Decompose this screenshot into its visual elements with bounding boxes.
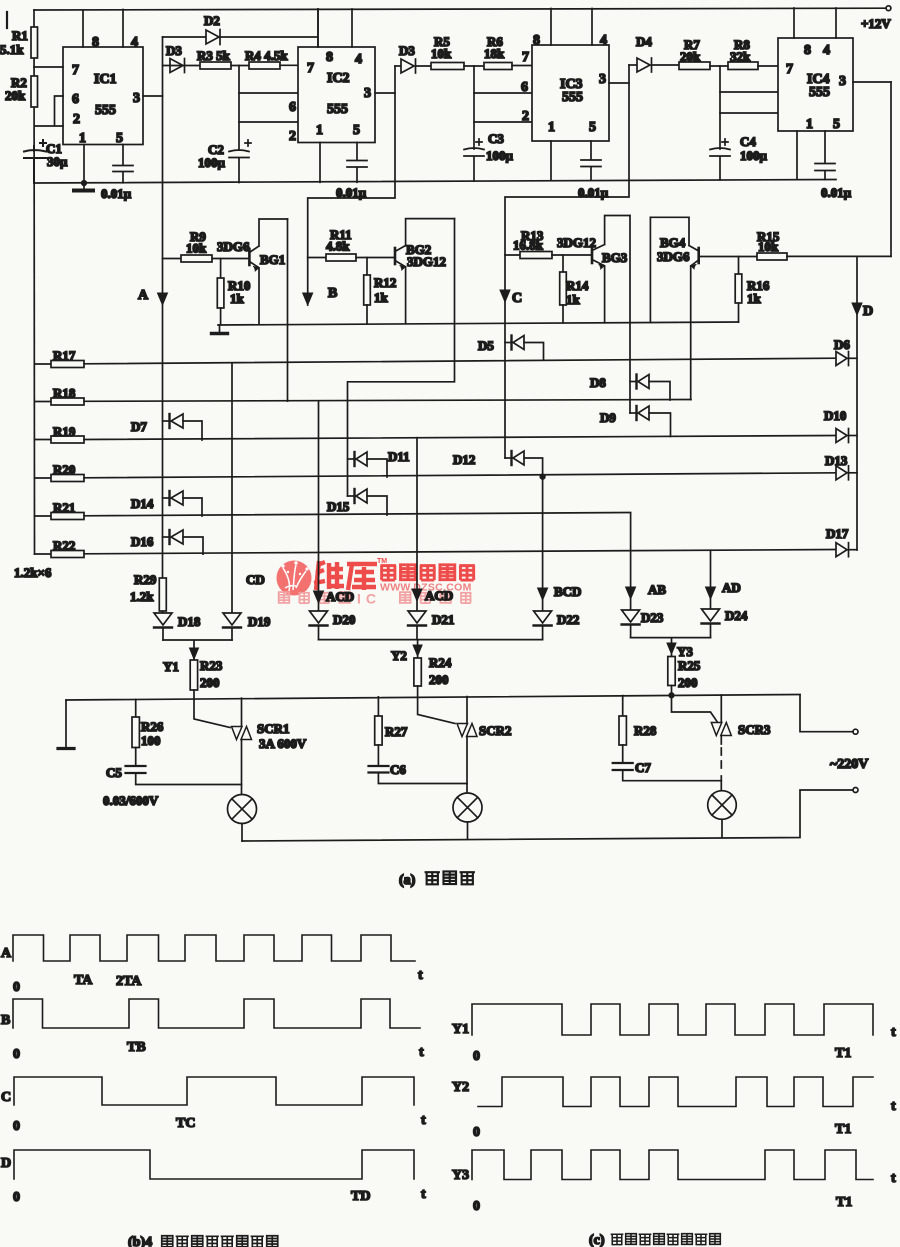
svg-text:D3: D3 <box>166 43 182 58</box>
svg-text:Y2: Y2 <box>391 648 407 663</box>
svg-text:Y1: Y1 <box>452 1022 469 1037</box>
diode D12 <box>453 451 545 479</box>
svg-text:6: 6 <box>289 100 296 115</box>
svg-text:1: 1 <box>316 123 323 138</box>
svg-text:7: 7 <box>72 63 79 78</box>
pin 3 IC4 wire <box>839 74 891 89</box>
diode D5 <box>478 336 544 361</box>
diode D18 <box>154 613 201 640</box>
svg-text:D: D <box>1 1156 11 1171</box>
diode D10 <box>824 408 857 443</box>
capacitor 0.01u IC2 pin5 <box>336 123 367 200</box>
svg-text:5: 5 <box>116 131 123 146</box>
op-amp IC3 555 <box>532 45 609 141</box>
svg-text:~220V: ~220V <box>830 757 868 772</box>
svg-text:1.2k×6: 1.2k×6 <box>14 565 52 580</box>
resistor R20 <box>35 462 837 482</box>
svg-text:t: t <box>418 968 423 983</box>
svg-text:D11: D11 <box>388 449 410 464</box>
resistor R14 <box>560 255 589 323</box>
node ACD vertical 1 <box>314 401 355 613</box>
node CD vertical <box>232 364 265 613</box>
text 维库 <box>314 561 377 590</box>
svg-text:A: A <box>138 288 149 303</box>
lamp L1 <box>228 795 257 842</box>
svg-text:R1: R1 <box>12 28 28 43</box>
wire IC4 pin3 down <box>890 82 892 256</box>
svg-text:1k: 1k <box>230 291 245 306</box>
svg-text:TD: TD <box>351 1189 370 1204</box>
diode D20 <box>310 611 356 640</box>
wire 220V upper <box>800 695 853 732</box>
diode D24 <box>702 608 748 638</box>
pin 3 IC1 wire <box>133 91 163 106</box>
node Y1 arrow <box>163 648 199 674</box>
svg-text:3DG6: 3DG6 <box>217 239 250 254</box>
capacitor C1 <box>24 140 68 183</box>
svg-text:BG1: BG1 <box>260 252 285 267</box>
svg-text:D23: D23 <box>641 610 664 625</box>
waveform Y2 <box>452 1077 896 1140</box>
svg-text:3: 3 <box>839 74 846 89</box>
logo circle <box>277 561 312 596</box>
svg-text:IC2: IC2 <box>327 71 350 86</box>
svg-text:t: t <box>891 1099 896 1114</box>
svg-text:BG3: BG3 <box>602 250 628 265</box>
wire Y1 join bar <box>163 640 232 660</box>
transistor BG2 <box>395 219 455 324</box>
wire C3 branch <box>473 66 475 181</box>
waveform Y1 <box>452 1004 896 1064</box>
pin 3 IC3 wire <box>599 72 629 87</box>
svg-text:C: C <box>512 291 522 306</box>
transistor SCR1 triac <box>232 698 307 794</box>
svg-text:1: 1 <box>79 131 86 146</box>
svg-text:D6: D6 <box>834 337 850 352</box>
resistor R1 <box>0 27 38 58</box>
svg-text:Y3: Y3 <box>677 644 693 659</box>
svg-text:ACD: ACD <box>326 589 354 604</box>
diode D11 <box>348 449 410 477</box>
pin 6 IC2 wire <box>239 93 298 115</box>
svg-text:200: 200 <box>429 672 449 687</box>
svg-text:555: 555 <box>562 90 583 105</box>
svg-text:3: 3 <box>364 86 371 101</box>
diode D15 <box>327 489 387 515</box>
svg-text:D13: D13 <box>825 453 848 468</box>
pin 4 IC2 <box>352 9 362 67</box>
svg-text:10k: 10k <box>431 46 452 61</box>
node Y3 arrow <box>667 643 693 659</box>
svg-text:4.8k: 4.8k <box>326 239 350 254</box>
svg-text:+12V: +12V <box>861 16 891 31</box>
svg-text:1k: 1k <box>374 290 389 305</box>
resistor R15 <box>757 229 891 260</box>
transistor BG3 <box>557 216 630 323</box>
pin 4 IC1 <box>123 10 138 51</box>
svg-text:0: 0 <box>473 1049 480 1064</box>
pin 6 IC3 wire <box>474 80 532 95</box>
svg-text:R23: R23 <box>200 658 223 673</box>
wire bottom rail stage row <box>34 180 836 184</box>
text 电子市场网 <box>380 565 474 580</box>
svg-text:t: t <box>421 1113 426 1128</box>
svg-text:D9: D9 <box>600 410 616 425</box>
svg-text:TM: TM <box>377 558 387 565</box>
svg-text:T1: T1 <box>835 1046 851 1061</box>
pin 6 IC4 wire <box>720 88 793 103</box>
svg-text:D14: D14 <box>131 496 154 511</box>
svg-text:1k: 1k <box>747 291 762 306</box>
pin 8 IC2 <box>318 9 333 65</box>
pin 2 IC4 wire <box>720 110 792 125</box>
wire left rail <box>33 10 36 554</box>
pin 1 IC4 wire <box>797 117 813 180</box>
svg-text:D10: D10 <box>824 408 846 423</box>
svg-text:100μ: 100μ <box>198 155 226 170</box>
transistor SCR3 triac <box>711 695 771 791</box>
waveform A <box>1 935 423 995</box>
svg-text:1.2k: 1.2k <box>130 589 154 604</box>
svg-text:5: 5 <box>589 120 596 135</box>
wire SCR gate rail <box>66 695 800 701</box>
capacitor C2 <box>198 140 251 170</box>
svg-text:R19: R19 <box>53 424 76 439</box>
svg-text:0: 0 <box>13 1190 20 1205</box>
diode D2 <box>163 9 319 47</box>
svg-text:0: 0 <box>13 1119 20 1134</box>
svg-text:8: 8 <box>92 35 99 50</box>
svg-text:16.8k: 16.8k <box>513 238 544 253</box>
wire BG4 base to R15 <box>699 256 757 258</box>
resistor R12 <box>364 258 397 324</box>
pin 8 IC3 <box>533 9 551 49</box>
svg-text:R26: R26 <box>141 719 164 734</box>
wire IC2 pin3 to B <box>308 66 395 305</box>
svg-text:t: t <box>891 1025 896 1040</box>
ground rail row2 <box>218 322 739 325</box>
diode D8 <box>590 375 670 401</box>
pin 2 IC2 wire <box>239 122 298 144</box>
svg-text:5: 5 <box>353 123 360 138</box>
node ACD vertical 2 <box>412 438 453 611</box>
svg-text:TB: TB <box>127 1040 146 1055</box>
diode D19 <box>223 613 271 640</box>
node D vertical <box>852 256 873 550</box>
resistor R9 <box>163 229 249 262</box>
transistor BG4 <box>650 217 698 399</box>
svg-text:AD: AD <box>722 580 741 595</box>
resistor R24 <box>414 655 452 698</box>
capacitor 0.01u IC4 pin5 <box>815 117 852 200</box>
svg-text:7: 7 <box>522 50 529 65</box>
capacitor C3 <box>464 131 514 163</box>
wire Y3 join bar <box>631 638 711 657</box>
op-amp IC4 555 <box>778 38 853 131</box>
resistor R11 <box>308 227 394 261</box>
pin 7 IC1 wire <box>34 63 79 78</box>
svg-text:C: C <box>1 1090 11 1105</box>
resistor R5 <box>431 34 484 70</box>
svg-text:SCR3: SCR3 <box>738 722 771 737</box>
resistor R17 <box>35 348 837 368</box>
diode D23 <box>622 610 664 638</box>
pin 3 IC2 wire <box>364 86 395 101</box>
capacitor C6 <box>369 762 468 784</box>
svg-text:3DG6: 3DG6 <box>657 249 690 264</box>
diode D7 <box>131 414 202 440</box>
svg-text:100μ: 100μ <box>486 148 514 163</box>
pin 8 IC1 <box>83 10 99 50</box>
diode D14 <box>131 491 202 516</box>
wire C4 branch <box>719 66 721 180</box>
pin 2 IC3 wire <box>474 109 532 124</box>
svg-text:T1: T1 <box>835 1122 851 1137</box>
svg-text:0: 0 <box>13 980 20 995</box>
resistor R25 <box>668 657 701 698</box>
svg-text:R28: R28 <box>634 723 657 738</box>
svg-text:IC: IC <box>357 591 381 607</box>
svg-text:8: 8 <box>326 50 333 65</box>
svg-text:4: 4 <box>131 35 138 50</box>
wire SCR1 gate <box>194 699 230 727</box>
wire IC3 pin3 to C <box>505 65 629 458</box>
svg-text:SCR1: SCR1 <box>257 721 290 736</box>
diode D3 second <box>395 43 431 73</box>
svg-text:BCD: BCD <box>554 584 581 599</box>
ground symbol row2 <box>212 325 228 334</box>
svg-text:(c): (c) <box>589 1233 605 1247</box>
wire BG4 collector left leg <box>649 217 651 322</box>
resistor R4 <box>231 48 298 69</box>
resistor R16 <box>735 257 770 323</box>
svg-text:B: B <box>1 1013 10 1028</box>
resistor R7 <box>679 37 728 70</box>
diode D9 <box>600 406 671 436</box>
svg-text:4: 4 <box>823 43 830 58</box>
pin 1 IC2 wire <box>316 123 323 182</box>
svg-text:R18: R18 <box>53 386 76 401</box>
svg-text:8: 8 <box>533 33 540 48</box>
pin 4 IC3 <box>592 9 607 49</box>
svg-text:0.03/600V: 0.03/600V <box>103 793 159 808</box>
svg-text:1: 1 <box>806 117 813 132</box>
diode D4 <box>629 34 679 72</box>
svg-text:C4: C4 <box>740 134 756 149</box>
svg-text:2TA: 2TA <box>116 974 142 989</box>
diode D16 <box>131 530 203 554</box>
svg-text:555: 555 <box>809 85 830 100</box>
svg-text:200: 200 <box>200 675 220 690</box>
svg-text:6: 6 <box>521 80 528 95</box>
resistor R19 <box>35 424 837 443</box>
wire C2 branch <box>238 66 240 183</box>
node 220V lower terminal <box>853 788 858 793</box>
wire SCR2 gate <box>418 697 455 723</box>
svg-text:BG4: BG4 <box>660 235 686 250</box>
wire SCR3 gate <box>672 695 718 721</box>
capacitor C5 <box>103 765 242 808</box>
svg-text:Y1: Y1 <box>163 659 179 674</box>
diode D21 <box>408 611 454 640</box>
resistor R8 <box>728 37 778 70</box>
diode D13 <box>825 453 857 480</box>
svg-text:R20: R20 <box>53 462 75 477</box>
svg-text:CD: CD <box>246 572 265 587</box>
svg-text:7: 7 <box>786 62 793 77</box>
node AB vertical <box>626 513 667 611</box>
svg-text:D15: D15 <box>327 499 350 514</box>
lamp L3 <box>708 791 737 838</box>
node Y2 arrow <box>391 645 422 663</box>
resistor R13 <box>505 228 591 259</box>
resistor R21 <box>35 500 631 520</box>
svg-text:32k: 32k <box>730 49 751 64</box>
svg-text:20k: 20k <box>5 88 26 103</box>
capacitor C4 <box>710 134 768 163</box>
svg-text:R17: R17 <box>53 348 76 363</box>
wire +12V top rail <box>34 8 886 10</box>
svg-text:R25: R25 <box>678 658 701 673</box>
svg-text:(a): (a) <box>399 873 416 888</box>
svg-text:5: 5 <box>833 117 840 132</box>
svg-text:D: D <box>863 304 873 319</box>
pin 6 IC1 wire <box>35 92 81 127</box>
svg-text:R27: R27 <box>385 724 408 739</box>
svg-text:3: 3 <box>133 91 140 106</box>
wire Y2 join bar <box>319 640 543 658</box>
svg-text:6: 6 <box>72 92 79 107</box>
svg-text:B: B <box>328 286 337 301</box>
svg-text:30μ: 30μ <box>47 154 68 169</box>
op-amp IC1 555 <box>63 47 143 145</box>
svg-text:C7: C7 <box>635 760 651 775</box>
svg-text:2: 2 <box>73 112 80 127</box>
node C arrow <box>500 290 522 306</box>
op-amp IC2 555 <box>298 47 375 143</box>
waveform Y3 <box>452 1150 896 1214</box>
svg-text:0: 0 <box>473 1199 480 1214</box>
lamp L2 <box>453 793 482 839</box>
waveform D <box>1 1150 426 1205</box>
capacitor 0.01u IC1 pin5 <box>101 131 133 201</box>
svg-text:5.1k: 5.1k <box>0 42 24 57</box>
svg-text:1k: 1k <box>566 292 581 307</box>
node 220V upper terminal <box>830 729 868 772</box>
svg-text:3DG12: 3DG12 <box>407 254 446 269</box>
resistor R3 <box>163 48 232 69</box>
svg-text:TC: TC <box>176 1116 195 1131</box>
caption (b) <box>128 1235 278 1247</box>
resistor R22 <box>14 538 836 580</box>
node +12V terminal <box>861 6 891 31</box>
capacitor C7 <box>613 760 722 781</box>
resistor R10 <box>217 259 250 325</box>
svg-text:D7: D7 <box>131 419 147 434</box>
svg-text:3DG12: 3DG12 <box>557 235 596 250</box>
svg-text:7: 7 <box>307 61 314 76</box>
svg-text:IC1: IC1 <box>94 72 117 87</box>
svg-text:100: 100 <box>141 733 161 748</box>
resistor R29 <box>130 572 166 611</box>
svg-text:R12: R12 <box>374 275 396 290</box>
resistor R2 <box>5 75 38 107</box>
svg-text:(b)4: (b)4 <box>128 1235 152 1247</box>
node B arrow <box>303 286 338 305</box>
waveform B <box>1 999 424 1062</box>
svg-text:TA: TA <box>74 973 93 988</box>
svg-text:20k: 20k <box>680 49 701 64</box>
svg-text:R3 5k: R3 5k <box>197 48 231 63</box>
svg-text:Y2: Y2 <box>452 1080 469 1095</box>
resistor R18 <box>35 386 692 406</box>
svg-text:4: 4 <box>600 33 607 48</box>
svg-text:0: 0 <box>473 1125 480 1140</box>
svg-text:2: 2 <box>289 129 296 144</box>
svg-text:D3: D3 <box>399 43 415 58</box>
diode D6 <box>834 337 857 366</box>
waveform C <box>1 1077 426 1134</box>
scan mark top-left <box>6 12 8 28</box>
svg-text:C3: C3 <box>488 131 504 146</box>
svg-text:D12: D12 <box>453 452 475 467</box>
svg-text:555: 555 <box>95 103 116 118</box>
transistor BG1 <box>217 219 288 325</box>
svg-text:R4 4.5k: R4 4.5k <box>245 48 288 63</box>
caption (a) <box>399 871 474 888</box>
pin 1 IC3 wire <box>548 120 555 181</box>
svg-text:D8: D8 <box>590 375 606 390</box>
text 全球最大IC采购网站 <box>279 592 472 603</box>
svg-text:4: 4 <box>355 52 362 67</box>
svg-text:200: 200 <box>678 675 698 690</box>
svg-text:10k: 10k <box>758 239 779 254</box>
svg-text:R21: R21 <box>53 500 75 515</box>
svg-text:D18: D18 <box>178 614 201 629</box>
ground under IC1 <box>74 183 93 191</box>
svg-text:8: 8 <box>804 43 811 58</box>
pin 8 IC4 <box>794 8 811 58</box>
svg-text:C6: C6 <box>390 762 406 777</box>
svg-text:0.01μ: 0.01μ <box>821 185 852 200</box>
node AD vertical <box>706 550 741 609</box>
svg-text:R29: R29 <box>134 572 157 587</box>
svg-text:T1: T1 <box>836 1195 852 1210</box>
svg-text:D4: D4 <box>636 34 652 49</box>
svg-text:ACD: ACD <box>425 588 453 603</box>
svg-text:AB: AB <box>648 582 666 597</box>
svg-text:A: A <box>1 946 12 961</box>
diode D17 <box>826 526 857 557</box>
node BCD vertical <box>538 477 582 611</box>
svg-text:t: t <box>419 1045 424 1060</box>
wire BG3 collector to D8 D9 <box>629 216 631 414</box>
pin 4 IC4 <box>823 8 836 58</box>
transistor SCR2 triac <box>457 697 512 793</box>
caption (c) <box>589 1233 720 1247</box>
svg-text:D24: D24 <box>725 608 748 623</box>
svg-text:100μ: 100μ <box>740 148 768 163</box>
wire BG2 collector jog to D11 D15 <box>348 219 455 496</box>
wire BG1 collector to R18 <box>287 219 289 401</box>
svg-text:t: t <box>421 1187 426 1202</box>
svg-text:t: t <box>891 1171 896 1186</box>
resistor R6 <box>484 34 532 70</box>
svg-text:C5: C5 <box>106 765 122 780</box>
svg-text:R22: R22 <box>53 538 75 553</box>
diode D3 <box>166 43 185 73</box>
svg-text:D16: D16 <box>131 534 154 549</box>
